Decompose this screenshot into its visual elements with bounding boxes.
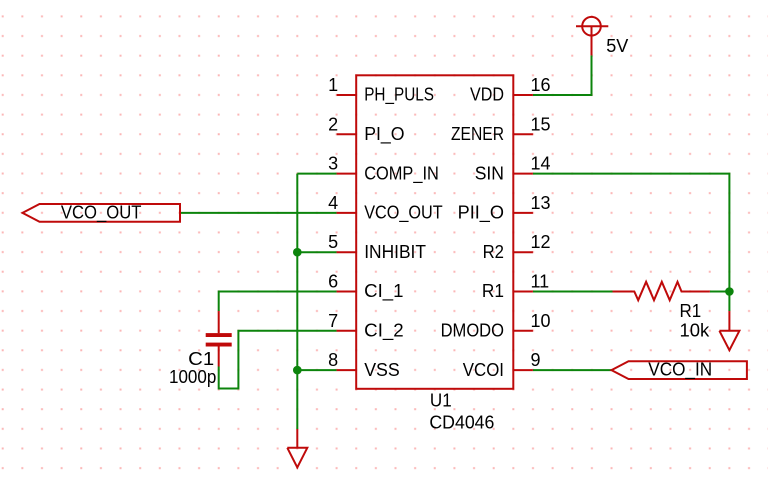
svg-text:7: 7 (328, 311, 338, 331)
svg-text:SIN: SIN (475, 163, 504, 183)
wire pin5 INHIBIT from junction (297, 251, 336, 253)
capacitor C1 (206, 311, 232, 366)
pin 1 (PH_PULS) (328, 75, 434, 106)
wire pin9 VCOI to VCO_IN flag (533, 369, 612, 371)
svg-text:11: 11 (531, 272, 550, 292)
wire node to ground stem (728, 292, 730, 312)
pin 9 (VCOI) (463, 350, 541, 380)
svg-text:CD4046: CD4046 (429, 413, 494, 433)
junction pin5/bus (293, 248, 302, 257)
wire VCO_OUT flag to pin4 (180, 212, 337, 214)
pin 8 (VSS) (328, 350, 400, 380)
svg-text:PH_PULS: PH_PULS (364, 85, 434, 106)
pin 11 (R1) (482, 272, 549, 302)
ground (bottom, VSS bus) (287, 429, 307, 467)
wire pin11 to R1 left lead (533, 291, 613, 293)
svg-text:10k: 10k (680, 321, 711, 341)
svg-text:3: 3 (328, 154, 338, 174)
pin 12 (R2) (483, 232, 551, 262)
net flag VCO_IN (612, 360, 747, 381)
svg-text:ZENER: ZENER (451, 124, 504, 144)
svg-text:6: 6 (328, 272, 338, 292)
svg-text:C1: C1 (188, 349, 214, 369)
wire pin7 CI_2 to C1 bottom (219, 331, 337, 389)
pin 4 (VCO_OUT) (328, 193, 443, 224)
svg-text:13: 13 (531, 193, 551, 213)
svg-text:1: 1 (328, 75, 338, 95)
resistor R1 (613, 282, 710, 300)
svg-text:4: 4 (328, 193, 338, 213)
pin 13 (PII_O) (458, 193, 551, 224)
svg-text:VCO_OUT: VCO_OUT (364, 203, 443, 224)
svg-text:VSS: VSS (364, 360, 400, 380)
svg-text:5: 5 (328, 232, 338, 252)
pin 2 (PI_O) (328, 114, 404, 145)
junction pin8/bus (293, 366, 302, 375)
svg-text:1000p: 1000p (169, 367, 216, 387)
ground (right, below R1 node) (719, 311, 739, 350)
svg-text:PII_O: PII_O (458, 203, 504, 224)
svg-text:R2: R2 (483, 242, 504, 262)
svg-text:5V: 5V (606, 36, 628, 56)
svg-text:DMODO: DMODO (441, 321, 504, 341)
pin 3 (COMP_IN) (328, 154, 439, 185)
IC U1 CD4046 body (356, 75, 513, 389)
svg-text:R1: R1 (482, 281, 504, 301)
pin 5 (INHIBIT) (328, 232, 426, 262)
pin 16 (VDD) (470, 75, 551, 105)
wire pin8 VSS from junction (297, 369, 336, 371)
svg-text:16: 16 (531, 75, 551, 95)
svg-text:R1: R1 (680, 301, 702, 321)
pin 15 (ZENER) (451, 114, 551, 144)
wire vertical bus to bottom ground (296, 174, 298, 429)
svg-text:VCO_IN: VCO_IN (648, 360, 712, 381)
wire pin3 COMP_IN to vertical bus (297, 173, 336, 175)
net flag VCO_OUT (23, 202, 181, 223)
svg-text:INHIBIT: INHIBIT (364, 242, 426, 262)
svg-text:VDD: VDD (470, 85, 504, 105)
wire R1 right lead to node (710, 291, 730, 293)
svg-text:9: 9 (531, 350, 541, 370)
svg-text:VCO_OUT: VCO_OUT (61, 202, 142, 223)
pin 14 (SIN) (475, 154, 551, 184)
pin 6 (CI_1) (328, 272, 403, 303)
svg-text:10: 10 (531, 311, 551, 331)
svg-text:15: 15 (531, 114, 551, 134)
svg-text:2: 2 (328, 114, 338, 134)
svg-text:CI_1: CI_1 (364, 281, 403, 302)
svg-text:CI_2: CI_2 (364, 321, 404, 342)
svg-text:14: 14 (531, 154, 551, 174)
pin 10 (DMODO) (441, 311, 551, 341)
pin 7 (CI_2) (328, 311, 404, 342)
svg-text:PI_O: PI_O (364, 124, 404, 145)
svg-text:12: 12 (531, 232, 551, 252)
wire pin16 to 5V supply (533, 55, 592, 95)
svg-text:VCOI: VCOI (463, 360, 504, 380)
junction R1/SIN/ground node (725, 287, 734, 296)
wire pin14 SIN to node at R1 (533, 174, 729, 292)
svg-text:COMP_IN: COMP_IN (364, 163, 439, 184)
svg-text:8: 8 (328, 350, 338, 370)
power flag 5V (576, 17, 608, 56)
wire pin6 CI_1 to C1 top (219, 292, 337, 312)
svg-text:U1: U1 (430, 391, 452, 411)
